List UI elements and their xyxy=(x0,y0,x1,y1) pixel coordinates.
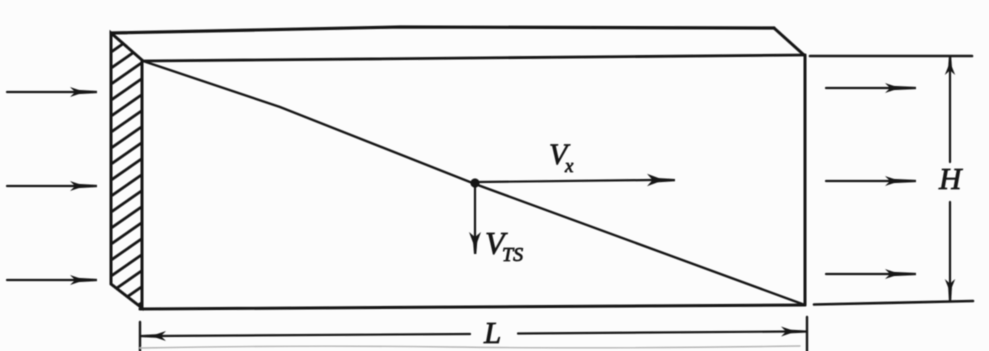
faint page underline artifact xyxy=(140,346,800,348)
svg-text:TS: TS xyxy=(502,244,523,266)
hatched inlet face outline xyxy=(111,33,142,308)
hatching on inlet face xyxy=(104,25,150,329)
diagonal shear line xyxy=(143,61,805,305)
inlet flow arrow 2 xyxy=(7,181,97,191)
velocity point dot xyxy=(470,178,479,187)
L dimension line right segment xyxy=(518,327,807,337)
inlet flow arrow 1 xyxy=(7,87,97,97)
outlet flow arrow 3 xyxy=(826,269,916,279)
L right extension tick xyxy=(806,317,808,351)
outlet flow arrow 2 xyxy=(826,176,916,186)
L dimension line left segment xyxy=(140,331,470,341)
svg-text:x: x xyxy=(564,156,574,177)
duct front bottom edge xyxy=(140,305,805,309)
Vx vector arrow xyxy=(478,174,675,186)
duct top-right bevel edge xyxy=(774,28,804,55)
duct front top edge xyxy=(142,55,805,61)
H top extension line xyxy=(810,55,972,58)
H dimension line upper segment xyxy=(945,57,955,163)
H dimension line lower segment xyxy=(945,202,955,301)
svg-text:H: H xyxy=(938,161,963,196)
svg-text:L: L xyxy=(483,315,501,350)
H bottom extension line xyxy=(814,301,973,305)
duct right edge xyxy=(804,55,807,305)
VTS vector arrow xyxy=(469,187,481,254)
outlet flow arrow 1 xyxy=(826,83,916,93)
L left extension tick xyxy=(139,322,141,351)
duct back top edge xyxy=(111,27,774,33)
inlet flow arrow 3 xyxy=(7,275,97,285)
